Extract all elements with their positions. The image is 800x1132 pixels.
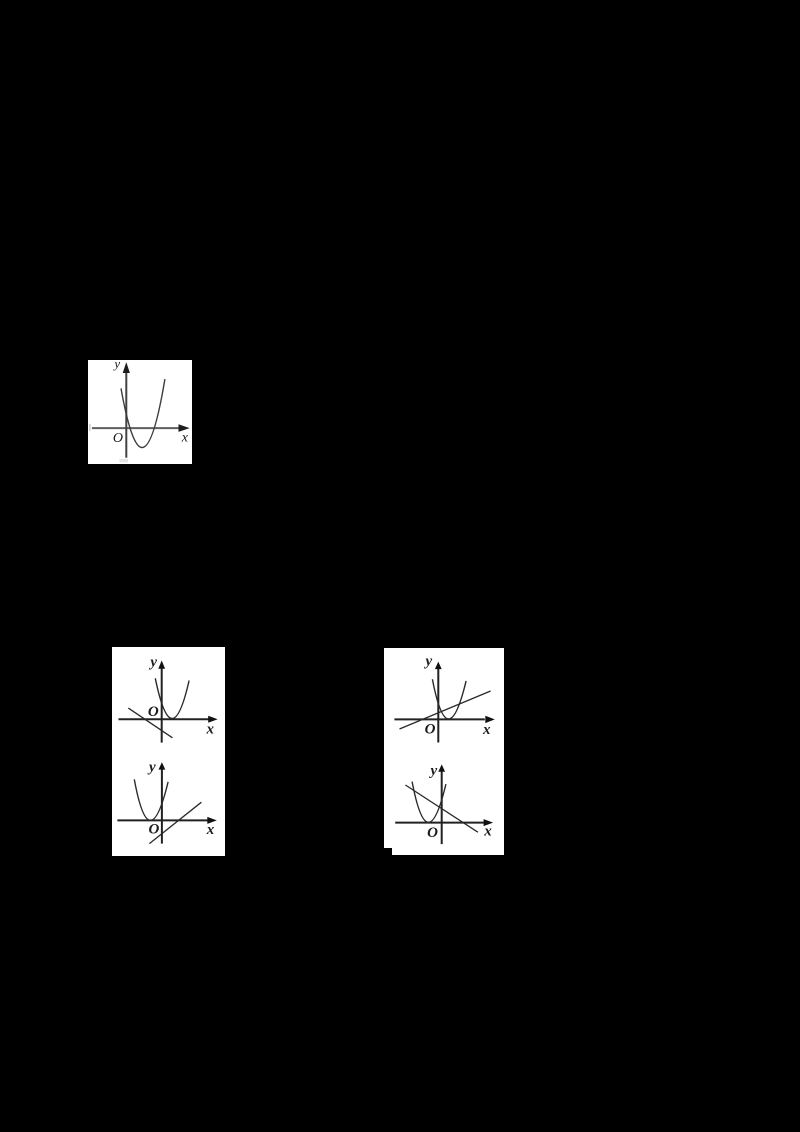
svg-text:x: x	[181, 430, 189, 445]
bottom graph y-axis arrowhead	[438, 764, 445, 771]
figure panel 1 (single graph: parabola crossing axes)	[88, 360, 192, 465]
y-axis arrowhead	[122, 362, 129, 373]
figure panel 3 bottom extension (step at bottom edge)	[392, 848, 505, 855]
top graph y-axis arrowhead	[435, 661, 442, 669]
svg-text:O: O	[148, 704, 159, 720]
bottom graph line (negative slope)	[405, 785, 478, 832]
svg-text:O: O	[427, 824, 438, 840]
bottom graph y-axis arrowhead	[159, 762, 166, 769]
bottom graph parabola	[412, 781, 446, 822]
bottom graph x-axis arrowhead	[484, 819, 494, 826]
top graph x-axis arrowhead	[485, 715, 495, 722]
top graph parabola	[432, 679, 466, 719]
top graph line (negative slope)	[129, 708, 173, 738]
top graph y-axis arrowhead	[159, 660, 166, 668]
bottom graph parabola	[135, 779, 169, 820]
top graph x-axis arrowhead	[208, 716, 217, 723]
x-axis arrowhead	[178, 424, 189, 432]
svg-text:y: y	[147, 759, 156, 775]
x-axis	[92, 427, 180, 429]
top graph parabola	[156, 678, 190, 718]
y-axis	[125, 368, 127, 458]
svg-text:y: y	[423, 653, 432, 669]
svg-text:O: O	[425, 721, 436, 737]
svg-text:x: x	[483, 823, 492, 839]
svg-text:y: y	[112, 360, 120, 371]
left tick artifact	[89, 423, 91, 430]
bottom graph x-axis	[395, 821, 484, 823]
bottom graph x-axis arrowhead	[208, 817, 217, 824]
svg-text:y: y	[428, 762, 437, 778]
svg-text:x: x	[206, 721, 215, 737]
top graph x-axis	[119, 718, 209, 720]
figure panel 2 (two stacked graphs, option A/C style)	[112, 647, 224, 856]
svg-text:O: O	[113, 431, 123, 446]
bottom graph line (positive slope)	[150, 802, 202, 843]
top graph line (positive slope)	[400, 691, 491, 729]
top graph x-axis	[394, 718, 484, 720]
bottom graph y-axis	[441, 769, 443, 844]
svg-text:y: y	[149, 654, 158, 670]
bottom graph y-axis	[161, 767, 163, 844]
svg-text:x: x	[482, 721, 491, 737]
bottom graph x-axis	[118, 819, 208, 821]
svg-text:x: x	[206, 822, 215, 838]
top graph y-axis	[161, 667, 163, 743]
svg-text:O: O	[149, 821, 160, 837]
figure panel 3 (two stacked graphs, option B/D style, with notched corner)	[384, 648, 504, 848]
parabola curve	[121, 379, 165, 447]
gray smudge under y-axis	[119, 459, 127, 462]
top graph y-axis	[437, 667, 439, 743]
